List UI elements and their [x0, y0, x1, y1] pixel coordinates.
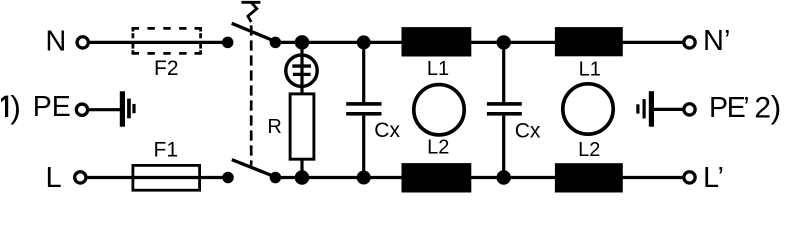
node: switch S1b left contact — [222, 172, 234, 184]
svg-text:): ) — [771, 89, 782, 125]
capacitor Cx1 bottom lead — [362, 116, 365, 178]
terminal L — [75, 172, 86, 183]
node: Cx1 bottom junction — [357, 171, 371, 185]
svg-text:L1: L1 — [579, 59, 601, 81]
svg-text:L’: L’ — [703, 162, 724, 194]
node: switch S1b right contact — [270, 172, 282, 184]
svg-text:PE: PE — [33, 91, 71, 123]
svg-text:R: R — [267, 116, 281, 138]
surge arrester lead (vertical) — [300, 42, 303, 94]
switch actuator spring zigzag — [248, 2, 257, 22]
node: switch S1a right contact — [270, 37, 282, 49]
svg-text:N: N — [45, 26, 66, 58]
wire L terminal to switch contact — [87, 176, 226, 179]
wire bottom line (switch to L') — [275, 176, 683, 179]
wire N terminal to switch contact — [89, 41, 225, 44]
svg-text:N’: N’ — [703, 25, 730, 57]
wire PE terminal to chassis — [88, 108, 121, 111]
svg-text:L: L — [46, 162, 62, 194]
svg-text:F1: F1 — [154, 138, 179, 161]
choke 2 winding L1 (top block) — [555, 27, 623, 56]
switch coupling dashed link — [250, 25, 253, 165]
capacitor Cx2 bottom lead — [502, 116, 505, 178]
svg-text:L2: L2 — [427, 137, 449, 159]
capacitor Cx2 top lead — [502, 42, 505, 102]
node: R bottom junction — [295, 170, 310, 185]
terminal PE' — [684, 104, 695, 115]
capacitor Cx1 bottom plate — [346, 112, 381, 116]
svg-text:PE: PE — [709, 92, 745, 124]
chassis earth symbol right: middle bar — [643, 99, 646, 118]
choke 2 winding L2 (bottom block) — [555, 163, 623, 192]
terminal L' — [684, 172, 695, 183]
chassis earth symbol left: middle bar — [127, 99, 131, 119]
capacitor Cx2 bottom plate — [487, 112, 522, 116]
choke 2 core (circle) — [563, 84, 613, 134]
node: switch S1a left contact — [222, 37, 234, 49]
svg-text:L2: L2 — [578, 139, 600, 161]
node: Cx2 top junction — [497, 35, 511, 49]
choke 1 winding L1 (top block) — [402, 27, 472, 56]
node: Cx1 top junction — [357, 35, 371, 49]
switch S1b blade — [232, 160, 276, 177]
switch S1a blade — [232, 23, 276, 41]
terminal N' — [684, 37, 695, 48]
terminal PE — [76, 104, 87, 115]
chassis earth symbol right: tall bar — [649, 91, 654, 127]
node: R top junction — [295, 35, 310, 50]
svg-text:Cx: Cx — [515, 119, 541, 142]
choke 1 core (circle) — [414, 85, 464, 135]
label 1) — [1, 96, 8, 118]
surge arrester top electrode — [292, 64, 311, 67]
resistor R (box) — [290, 94, 314, 159]
capacitor Cx2 top plate — [487, 102, 522, 106]
fuse F1 (box) — [133, 165, 200, 190]
wire top line (switch to N') — [275, 41, 683, 44]
svg-text:2: 2 — [754, 92, 771, 125]
switch actuator bar — [242, 1, 261, 4]
surge arrester bottom electrode — [293, 73, 311, 76]
node: Cx2 bottom junction — [497, 170, 511, 184]
svg-text:’: ’ — [743, 92, 749, 124]
svg-text:F2: F2 — [154, 57, 179, 80]
chassis earth symbol left: tall bar — [120, 91, 125, 126]
svg-text:): ) — [10, 89, 21, 125]
svg-text:L1: L1 — [427, 58, 449, 80]
wire chassis to PE' terminal — [653, 108, 684, 111]
choke 1 winding L2 (bottom block) — [402, 163, 472, 192]
capacitor Cx1 top plate — [346, 102, 381, 106]
terminal N — [77, 37, 88, 48]
surge arrester (circle) — [286, 55, 317, 86]
capacitor Cx1 top lead — [362, 42, 365, 102]
chassis earth symbol right: small bar — [636, 104, 639, 113]
svg-text:Cx: Cx — [374, 119, 400, 142]
chassis earth symbol left: small bar — [132, 104, 135, 113]
fuse F2 (dashed box) — [132, 27, 203, 55]
wire R to bottom line — [300, 161, 303, 178]
